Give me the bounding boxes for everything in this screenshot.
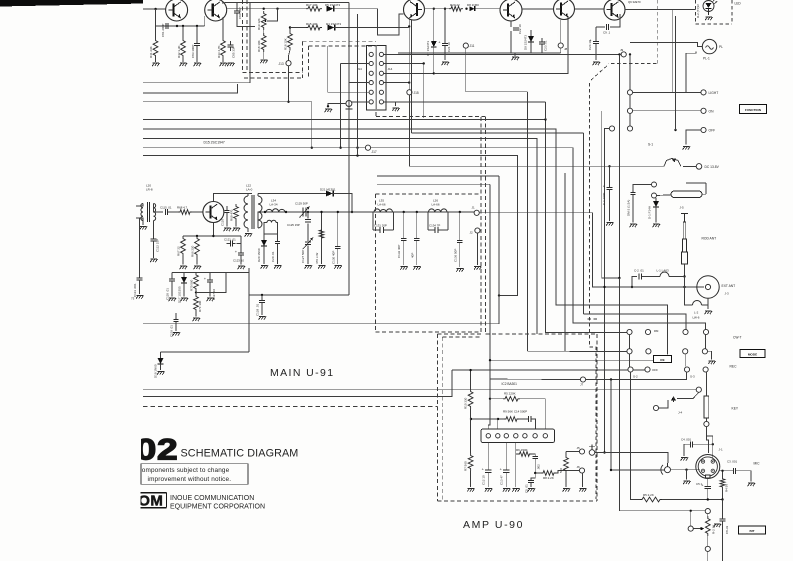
ground g1 (152, 63, 159, 66)
wire L22 sec bot (258, 212, 265, 228)
svg-text:D5 1S2473: D5 1S2473 (325, 3, 340, 7)
wire J2 gnd (476, 233, 478, 265)
IC2 pin 4 (514, 434, 518, 438)
dashed board edge v3b (308, 46, 310, 78)
ground C133 (413, 267, 420, 270)
diode D7 (431, 41, 437, 47)
svg-text:R9 56K C14 500P: R9 56K C14 500P (503, 409, 527, 413)
svg-text:J13: J13 (279, 62, 284, 66)
label R66 (191, 245, 195, 257)
label C117 (212, 289, 216, 300)
capacitor C125 (305, 212, 311, 241)
box RE (654, 356, 672, 363)
wire s2 stub2 (629, 354, 631, 367)
jack J7 (580, 377, 585, 382)
svg-text:R4 56: R4 56 (725, 484, 729, 492)
label C115 (160, 206, 172, 210)
wire R70 tap (196, 273, 226, 293)
svg-text:560: 560 (559, 468, 563, 473)
wire y184 rail (377, 183, 490, 185)
wire bus y155 (143, 156, 517, 296)
junction 690.7,510.8 (690, 510, 692, 512)
wire R19 join (263, 30, 265, 33)
wire R41 top (155, 26, 157, 38)
wire L20 in1 (136, 204, 143, 207)
svg-text:SCHEMATIC DIAGRAM: SCHEMATIC DIAGRAM (181, 448, 299, 460)
label R-2 (712, 525, 716, 534)
dashed y406 rail (143, 406, 437, 408)
wire C118 stem (171, 273, 173, 279)
svg-text:ON: ON (709, 109, 715, 113)
wire C117 gnd (209, 282, 211, 296)
label R41 (149, 46, 153, 58)
capacitor C129b (259, 300, 265, 302)
svg-text:R5 220K: R5 220K (504, 392, 516, 396)
wire R10 top (470, 370, 472, 389)
wire R67 gnd (182, 256, 184, 265)
wire y295 rail (249, 294, 349, 296)
capacitor C5b (528, 480, 534, 482)
svg-text:LA-0: LA-0 (246, 188, 253, 192)
label J-5 (680, 206, 684, 210)
svg-text:C12 10: C12 10 (482, 475, 486, 485)
wire R41 gnd (155, 58, 157, 62)
label J2 (470, 231, 474, 235)
svg-text:MODE: MODE (748, 353, 757, 357)
ground C130 (334, 266, 341, 269)
wire y396 rail (143, 370, 452, 396)
svg-text:EQUIPMENT CORPORATION: EQUIPMENT CORPORATION (170, 504, 265, 511)
label C5 (696, 482, 702, 486)
svg-text:BIT: BIT (750, 529, 755, 533)
wire C117 stem (209, 273, 211, 280)
label D4 (326, 22, 341, 26)
jack bottom2 (705, 546, 710, 551)
svg-text:C130 40P: C130 40P (331, 251, 335, 264)
ground C3 (748, 483, 755, 486)
label D19 (154, 364, 158, 378)
wire s2 stub1d (705, 335, 707, 349)
connector pin R4 (379, 81, 383, 85)
svg-text:D15 2SC1947: D15 2SC1947 (204, 141, 225, 145)
ground L22 (245, 234, 252, 237)
label DC (705, 165, 720, 169)
svg-text:C112 15P: C112 15P (156, 239, 160, 252)
wire KEYR down (706, 427, 708, 453)
junction 416.8,212 (416, 211, 418, 213)
wire C121 stem (237, 236, 242, 244)
wire C129b stem (261, 295, 263, 300)
svg-text:C5 1: C5 1 (696, 482, 702, 486)
ground D17 (181, 298, 188, 301)
transistor Q4 (500, 0, 522, 21)
svg-text:R67 22: R67 22 (177, 246, 181, 256)
wire pin L2 left (341, 63, 369, 65)
label DM-2 (627, 200, 631, 216)
wire C123 stem (240, 244, 242, 253)
label L22a (246, 184, 251, 188)
S-1 contact b (627, 108, 632, 113)
label L22b (246, 188, 253, 192)
resistor R15 (306, 25, 322, 30)
wire L22 pri top (248, 194, 252, 197)
ground C119 (173, 333, 180, 336)
svg-text:J-5: J-5 (680, 206, 684, 210)
label C130 (331, 251, 335, 264)
svg-text:PL-1: PL-1 (703, 57, 710, 61)
wire C15-R8 (535, 472, 541, 474)
connector pin L3 (369, 71, 373, 75)
label PL-1 (703, 57, 710, 61)
svg-text:R17 10K: R17 10K (306, 3, 318, 7)
wire R42 gnd (182, 58, 184, 62)
caption MAIN U-91 (270, 367, 335, 379)
wire J8 down (560, 48, 562, 53)
label C123 (233, 259, 244, 263)
capacitor C12 (482, 466, 492, 472)
transistor Q7 (203, 202, 224, 223)
wire Q4 emitter (510, 21, 512, 27)
svg-text:C85 33P: C85 33P (232, 46, 236, 58)
svg-text:RM: RM (654, 329, 659, 333)
label L26b (432, 203, 440, 207)
label KEY (732, 407, 739, 411)
capacitor C14 (529, 416, 532, 422)
junction 288.5,101.8 (287, 101, 289, 103)
wire ant shunt (685, 277, 693, 306)
label C9 (603, 31, 611, 35)
inductor L22 pri (244, 196, 248, 228)
svg-text:INOUE COMMUNICATION: INOUE COMMUNICATION (170, 495, 254, 502)
ground C136 (456, 269, 463, 272)
svg-text:D20 1N60: D20 1N60 (257, 248, 261, 262)
junction 357.5,155.6 (356, 154, 358, 156)
junction 604.5,452.5 (603, 451, 605, 453)
wire D9 bot (530, 42, 532, 54)
resistor R43 (221, 38, 226, 58)
wire R9 left (498, 418, 504, 420)
dashed board edge v3 (302, 41, 304, 78)
wire S1 ladder (629, 54, 631, 125)
label L20b (146, 188, 153, 192)
wire ON (633, 110, 701, 112)
IC2 pin 3 (504, 434, 508, 438)
wire C130 gnd (337, 249, 339, 264)
svg-text:D7 1S2473: D7 1S2473 (426, 41, 430, 56)
wire C9 left (596, 26, 605, 28)
wire Q4-Q5 (522, 8, 554, 10)
label C22 (518, 24, 522, 34)
resistor R77 (319, 212, 324, 256)
wire pin R2 (384, 63, 424, 65)
wire y166 rail (409, 165, 609, 167)
wire KEYR top (705, 372, 707, 396)
ground R66 (194, 266, 201, 269)
wire pot top (707, 514, 709, 516)
junction 490,360.2 (489, 359, 491, 361)
wire cluster box left (160, 352, 162, 358)
wire top feed (143, 8, 166, 10)
svg-text:J7: J7 (580, 383, 584, 387)
label R10 (464, 397, 468, 409)
wire C8 down (722, 521, 724, 561)
label D7 (426, 41, 430, 56)
svg-text:J15: J15 (414, 91, 419, 95)
svg-text:OFF: OFF (652, 368, 658, 372)
label R17 (306, 3, 318, 7)
diode D-1 (653, 201, 659, 207)
ICOM logo box (128, 489, 166, 513)
svg-text:02: 02 (136, 433, 179, 466)
svg-text:L-2: L-2 (694, 311, 699, 315)
connector pin R6 (379, 100, 383, 104)
wire pin R6 gnd lead (384, 102, 396, 106)
label R6 (516, 448, 528, 452)
label REC (730, 365, 738, 369)
svg-text:R70 560: R70 560 (190, 279, 194, 291)
wire C5b gnd (530, 483, 532, 487)
svg-text:R7 560: R7 560 (464, 461, 468, 471)
label R68 (177, 206, 188, 210)
dashed board edge v2 (246, 0, 248, 73)
label LIGHT (709, 91, 719, 95)
label C127v (301, 250, 305, 263)
junction 619.5,54.4 (618, 53, 620, 55)
wire x583 vertical (582, 133, 584, 314)
jack J2 (475, 228, 480, 233)
label R9 C14 (503, 409, 527, 413)
junction 707.8,499.5 (707, 498, 709, 500)
svg-text:DM-2 (1.5A): DM-2 (1.5A) (627, 200, 631, 216)
svg-text:S-2: S-2 (633, 375, 638, 379)
label C20 (271, 251, 275, 262)
capacitor C129 variable (296, 207, 312, 218)
wire R10-R7 (470, 409, 472, 453)
capacitor C119 (173, 319, 178, 321)
label L26a (433, 199, 438, 203)
wire R15 rail (290, 27, 306, 29)
junction 545.5,119.5 (544, 118, 546, 120)
wire J13 trunk down (311, 102, 313, 148)
svg-text:LIGHT: LIGHT (709, 91, 719, 95)
wire C136 stem (459, 212, 461, 240)
wire C-1 stem (609, 166, 611, 187)
svg-text:C115 .01: C115 .01 (160, 206, 172, 210)
capacitor C121 (226, 241, 235, 247)
svg-text:C23 .01: C23 .01 (544, 40, 548, 51)
svg-text:R19 12K: R19 12K (257, 18, 261, 30)
wire x357 vertical (357, 14, 359, 156)
label EXT ANT (722, 284, 736, 288)
wire R18b to J13 (289, 50, 291, 61)
junction 177,26 (176, 25, 178, 27)
dashed S1 h (611, 63, 657, 65)
inductor L26 (429, 209, 448, 212)
junction 183,26 (182, 25, 184, 27)
wire cluster box right (248, 268, 250, 352)
resistor R67 (181, 236, 186, 256)
ground C127v (305, 266, 312, 269)
wire C113 stem (139, 218, 141, 278)
svg-text:OM: OM (138, 492, 163, 509)
label RM (654, 329, 659, 333)
svg-text:C8-33: C8-33 (725, 525, 729, 534)
wire D20 stem (263, 234, 265, 240)
label D17 (178, 286, 182, 303)
label L-1 (657, 269, 670, 273)
transistor Q3 (404, 0, 425, 20)
junction 403.7,212 (403, 211, 405, 213)
label C84 (238, 7, 242, 19)
label S-3 (690, 375, 695, 379)
svg-text:L-1 LA63: L-1 LA63 (657, 269, 670, 273)
label C119 (170, 325, 174, 337)
inductor L-2 (693, 301, 702, 306)
wire x675 vertical (675, 16, 677, 130)
wire s2 stub1 (629, 335, 631, 349)
wire pin L5 left (328, 91, 369, 93)
svg-text:LW-6: LW-6 (693, 316, 700, 320)
ground R3 (563, 489, 570, 492)
junction 535.2,473 (534, 472, 536, 474)
junction 619.4,278 (618, 277, 620, 279)
wire C130 stem (337, 212, 339, 246)
junction 609.5,166.3 (608, 165, 610, 167)
wire D17 gnd (183, 283, 185, 297)
wire antenna trunk (479, 213, 704, 287)
scan edge black bar (0, 0, 143, 7)
connector pin R2 (379, 61, 383, 65)
ground DM2 (630, 224, 637, 227)
svg-text:C22 10: C22 10 (518, 24, 522, 34)
wire R69 gnd (235, 221, 237, 227)
wire cluster box bottom (161, 351, 250, 353)
resistor R41 (153, 38, 158, 58)
S row3 contact a (628, 367, 633, 372)
jack J11 (463, 43, 468, 48)
wire DM2 gnd (632, 195, 634, 223)
resistor R68 (178, 210, 192, 215)
wire x527 vertical (527, 92, 529, 351)
capacitor C116 (224, 210, 229, 212)
svg-text:R42 3.3K: R42 3.3K (177, 45, 181, 58)
wire D20 rail (264, 233, 278, 235)
pilot lamp PL-1 (702, 39, 716, 53)
wire S2 gnd (708, 351, 712, 359)
label IC2 (502, 382, 518, 386)
junction 290,27.5 (289, 26, 291, 28)
diode D20 (261, 240, 267, 246)
transistor Q1 (166, 0, 188, 21)
svg-text:Q9 32E70: Q9 32E70 (628, 0, 641, 4)
connector pin L5 (369, 90, 373, 94)
rod antenna (681, 214, 688, 265)
ground J6 (579, 489, 586, 492)
ground C116 (224, 228, 231, 231)
svg-text:J-1: J-1 (719, 448, 723, 452)
wire R4 bot (722, 495, 724, 500)
capacitor C123 (235, 249, 244, 255)
wire cluster rail (172, 272, 249, 274)
resistor R17 (306, 6, 322, 11)
capacitor C4 (690, 441, 692, 447)
label C3 (727, 460, 738, 464)
plug jack (589, 445, 600, 456)
IC2 pin 6 (533, 434, 537, 438)
logo big 02 (98, 430, 178, 466)
wire Q1 base drop (155, 9, 157, 26)
S row1 contact d (703, 329, 708, 334)
wire Q5-Q6 (575, 8, 605, 10)
wire C24 gnd (595, 44, 597, 60)
svg-text:C-1 1000: C-1 1000 (602, 192, 606, 205)
ground pin jack (325, 109, 332, 112)
S row3 contact b (645, 367, 650, 372)
label R3 (559, 468, 563, 473)
wire D7 top (433, 9, 435, 41)
svg-text:LED: LED (735, 2, 742, 6)
junction 328,106.3 (327, 105, 329, 107)
wire D19 gnd (160, 364, 162, 371)
svg-text:C116: C116 (221, 219, 225, 226)
label S-2 (633, 375, 638, 379)
wire J7 rail2 (586, 372, 687, 379)
resistor R6 (518, 452, 532, 457)
fuse holder contacts (652, 182, 657, 198)
svg-text:C81 200P: C81 200P (161, 24, 165, 37)
wire J4 link (659, 400, 668, 408)
wire L24sec leg1 (264, 223, 267, 235)
wire Q6 base left (603, 8, 605, 10)
label J7 (580, 383, 584, 387)
label R43 (217, 45, 221, 58)
capacitor C112 (151, 239, 157, 241)
svg-text:LA-66: LA-66 (432, 203, 440, 207)
wire jack left (328, 104, 346, 107)
label C133 (410, 253, 414, 258)
inductor L34 (266, 209, 285, 212)
dashed AMP top1 (437, 333, 481, 335)
wire y26 rail (156, 25, 197, 27)
label C113 (133, 283, 137, 297)
wire C5 stem (707, 479, 709, 487)
svg-text:RE: RE (660, 358, 664, 362)
wire D20 gnd (263, 246, 265, 264)
wire R42 top (182, 26, 184, 38)
label C131 (374, 224, 387, 228)
jack J1 (474, 210, 479, 215)
switch arm (671, 392, 699, 402)
junction 311.8,147.7 (311, 147, 313, 149)
ground C-1 (606, 223, 613, 226)
capacitor C9 (606, 24, 608, 30)
svg-text:OFF: OFF (709, 129, 716, 133)
wire R18b top (289, 28, 291, 32)
transistor Q5 (554, 0, 575, 20)
junction 611,379.5 (610, 378, 612, 380)
label C85 (232, 46, 236, 58)
label R71 (198, 300, 202, 312)
transistor Q6 (604, 0, 625, 20)
svg-text:J2: J2 (470, 231, 474, 235)
svg-text:C121 .01: C121 .01 (224, 238, 236, 242)
wire R3 gnd (565, 473, 567, 487)
core L20 (148, 202, 150, 222)
wire y26 rail b (197, 25, 205, 27)
jack J15 (407, 90, 412, 95)
capacitor C115 (165, 209, 167, 215)
capacitor C24 (589, 38, 599, 44)
